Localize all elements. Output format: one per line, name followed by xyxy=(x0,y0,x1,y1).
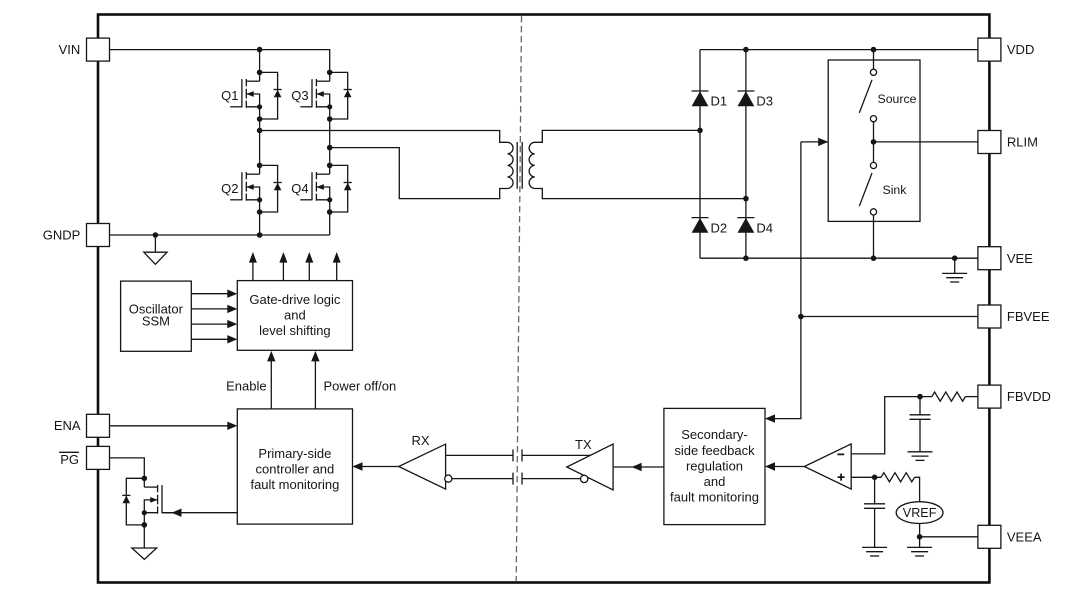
svg-text:D4: D4 xyxy=(756,220,773,235)
svg-text:PG: PG xyxy=(60,452,79,467)
svg-text:Sink: Sink xyxy=(883,183,908,197)
svg-text:GNDP: GNDP xyxy=(43,227,81,242)
svg-text:Secondary-: Secondary- xyxy=(681,427,747,442)
svg-text:Source: Source xyxy=(878,92,917,106)
svg-text:TX: TX xyxy=(575,437,592,452)
svg-text:and: and xyxy=(704,474,726,489)
svg-text:D1: D1 xyxy=(711,94,728,109)
svg-text:VDD: VDD xyxy=(1007,42,1034,57)
svg-text:VEE: VEE xyxy=(1007,251,1033,266)
svg-text:Q3: Q3 xyxy=(291,88,308,103)
svg-text:Primary-side: Primary-side xyxy=(258,446,331,461)
svg-text:D3: D3 xyxy=(756,94,773,109)
svg-text:Q2: Q2 xyxy=(221,181,238,196)
svg-text:and: and xyxy=(284,308,306,323)
svg-text:Q1: Q1 xyxy=(221,88,238,103)
svg-text:Enable: Enable xyxy=(226,378,266,393)
svg-text:RX: RX xyxy=(412,433,430,448)
svg-text:VREF: VREF xyxy=(903,506,937,520)
svg-text:Q4: Q4 xyxy=(291,181,308,196)
svg-text:level shifting: level shifting xyxy=(259,323,331,338)
svg-text:SSM: SSM xyxy=(142,314,170,329)
svg-text:FBVDD: FBVDD xyxy=(1007,389,1051,404)
svg-text:controller and: controller and xyxy=(256,461,335,476)
svg-text:ENA: ENA xyxy=(54,418,81,433)
svg-text:regulation: regulation xyxy=(686,458,743,473)
svg-text:fault monitoring: fault monitoring xyxy=(670,490,759,505)
svg-text:Gate-drive logic: Gate-drive logic xyxy=(249,292,341,307)
svg-text:D2: D2 xyxy=(711,220,728,235)
svg-text:VIN: VIN xyxy=(59,42,81,57)
svg-text:fault monitoring: fault monitoring xyxy=(250,477,339,492)
svg-text:VEEA: VEEA xyxy=(1007,529,1042,544)
svg-text:FBVEE: FBVEE xyxy=(1007,309,1050,324)
svg-text:Power off/on: Power off/on xyxy=(324,378,397,393)
svg-text:RLIM: RLIM xyxy=(1007,135,1038,150)
svg-text:side feedback: side feedback xyxy=(674,443,755,458)
